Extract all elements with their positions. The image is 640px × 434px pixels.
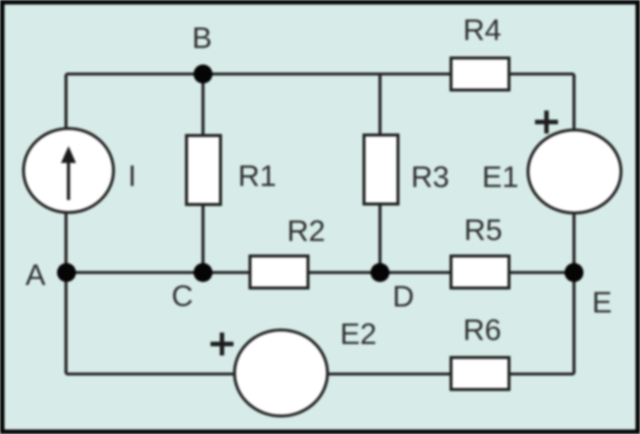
wire R3 branch to D: [378, 74, 381, 272]
resistor R4: [451, 58, 509, 90]
resistor R5: [451, 256, 509, 288]
voltage source E1: [528, 130, 621, 213]
plus sign E1: [535, 111, 558, 134]
node A: [57, 263, 76, 282]
voltage source E2: [235, 330, 328, 416]
svg-text:B: B: [192, 22, 212, 55]
node E: [565, 263, 584, 282]
wire bottom through E2 and R6: [66, 372, 574, 375]
svg-text:E1: E1: [482, 161, 519, 194]
current source I: [24, 129, 114, 213]
svg-text:R2: R2: [287, 215, 325, 248]
node B: [194, 65, 213, 84]
svg-text:R1: R1: [238, 160, 276, 193]
resistor R6: [451, 358, 509, 390]
svg-text:I: I: [128, 160, 136, 193]
svg-text:E: E: [592, 287, 612, 320]
resistor R1: [187, 136, 221, 205]
svg-text:R3: R3: [411, 161, 449, 194]
node D: [371, 263, 390, 282]
svg-text:R6: R6: [463, 314, 501, 347]
svg-text:E2: E2: [340, 318, 377, 351]
svg-text:D: D: [393, 281, 415, 314]
wire R1 branch B to C: [201, 74, 204, 272]
plus sign E2: [211, 333, 234, 356]
wire left vertical through I source: [64, 74, 67, 374]
svg-text:C: C: [172, 280, 194, 313]
node C: [194, 263, 213, 282]
svg-text:A: A: [26, 259, 46, 292]
wire top: A-corner to E1 branch: [66, 72, 574, 75]
resistor R2: [250, 256, 308, 288]
svg-text:R5: R5: [464, 214, 502, 247]
resistor R3: [364, 135, 398, 204]
wire right vertical through E1 and node E: [572, 74, 575, 374]
wire middle row A to E: [66, 271, 574, 274]
svg-text:R4: R4: [463, 14, 501, 47]
